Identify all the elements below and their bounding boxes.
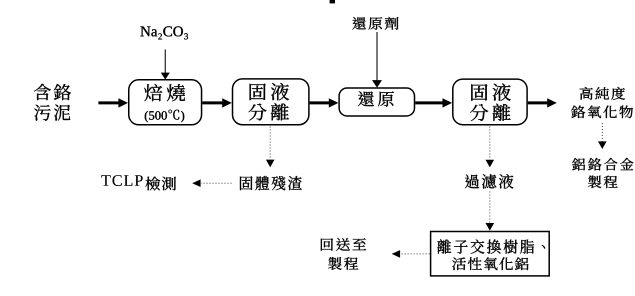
label product 高純度 line1 — [580, 87, 625, 100]
label Na2CO3 reagent — [140, 26, 188, 39]
label TCLP — [101, 175, 142, 186]
label recycle 回送至 line1 — [321, 238, 366, 251]
dotted arrow filtrate to ion-exchange box — [486, 192, 495, 231]
label 檢測 — [146, 177, 177, 191]
arrow Na2CO3 into roasting box — [161, 50, 170, 80]
box roasting 焙燒 — [129, 80, 202, 125]
box solid-liquid separation #1 — [233, 79, 309, 125]
arrow reducing agent into reduction box — [372, 32, 382, 88]
label product 鉻氧化物 line2 — [571, 106, 633, 119]
label solid residue 固體殘渣 — [240, 176, 302, 190]
box reduction 還原 — [339, 88, 414, 116]
thick arrow separation2 to product — [528, 98, 557, 107]
box ion-exchange resin / activated alumina — [431, 232, 550, 276]
label 鋁鉻合金 line1 — [572, 158, 633, 171]
label filtrate 過濾液 — [465, 174, 513, 188]
label (500℃) — [145, 110, 184, 123]
thick arrow sludge to roasting — [98, 98, 128, 107]
label 離子交換樹脂、 line1 — [437, 239, 545, 254]
dotted arrow separation2 to filtrate — [486, 127, 495, 168]
box solid-liquid separation #2 — [453, 79, 527, 125]
label reducing agent 還原劑 — [352, 17, 398, 30]
label recycle 製程 line2 — [328, 257, 358, 270]
label 活性氧化鋁 line2 — [452, 257, 528, 270]
label input sludge 污泥 line2 — [34, 105, 70, 121]
label 固液 (sep1 line1) — [250, 83, 290, 100]
dotted arrow residue to TCLP test — [192, 179, 231, 187]
label 還原 — [358, 91, 394, 106]
label 固液 (sep2 line1) — [471, 84, 511, 101]
dotted arrow product to Al-Cr alloy process — [598, 123, 607, 149]
label input sludge 含鉻 line1 — [34, 84, 71, 100]
top cropped mark — [330, 0, 335, 3]
dotted arrow ion-exchange box to recycle — [392, 250, 430, 258]
label 分離 (sep2 line2) — [470, 104, 511, 121]
label 焙燒 — [144, 84, 185, 101]
thick arrow separation1 to reduction — [310, 98, 339, 107]
dotted arrow separation1 to solid residue — [266, 127, 275, 168]
label 製程 line2 — [588, 176, 618, 189]
label 分離 (sep1 line2) — [248, 103, 289, 120]
thick arrow reduction to separation2 — [415, 98, 452, 107]
thick arrow roasting to separation1 — [202, 98, 232, 107]
